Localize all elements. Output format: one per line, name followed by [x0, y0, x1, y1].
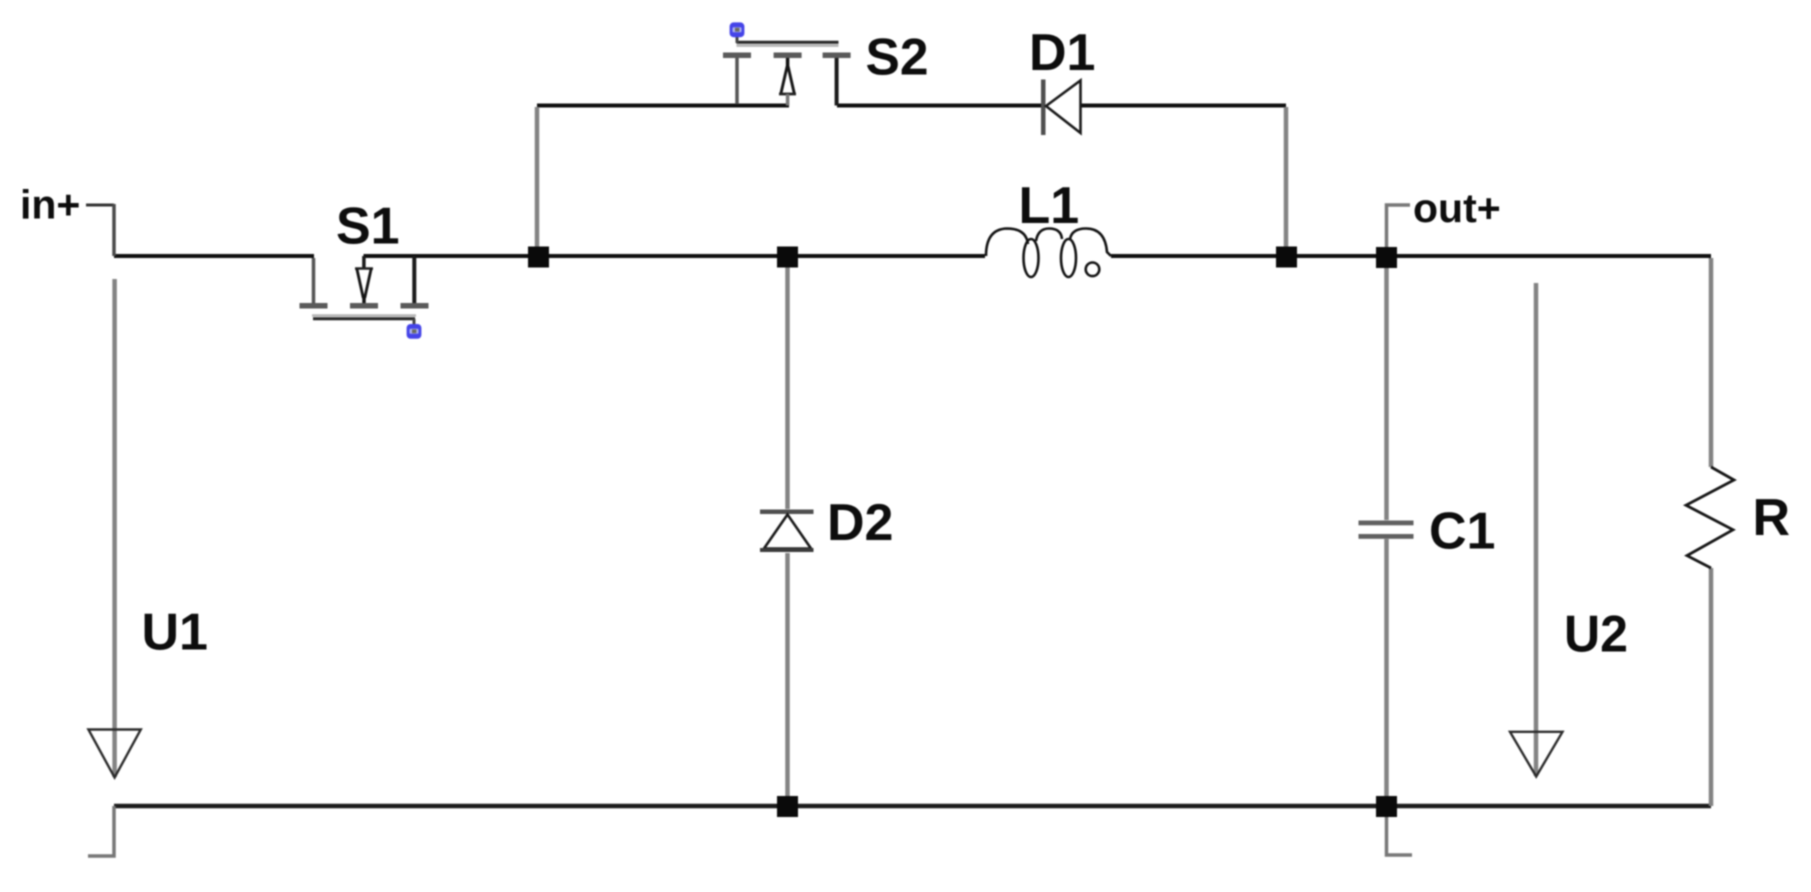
svg-text:D2: D2: [827, 494, 893, 552]
svg-text:L1: L1: [1019, 177, 1080, 235]
svg-text:S2: S2: [866, 29, 929, 87]
svg-text:D1: D1: [1029, 24, 1095, 82]
svg-text:U1: U1: [142, 604, 208, 662]
svg-text:in+: in+: [20, 182, 80, 228]
svg-text:R: R: [1753, 489, 1791, 547]
svg-text:U2: U2: [1564, 606, 1628, 664]
svg-text:S1: S1: [336, 198, 400, 256]
svg-text:C1: C1: [1429, 503, 1495, 561]
svg-text:out+: out+: [1413, 185, 1501, 231]
